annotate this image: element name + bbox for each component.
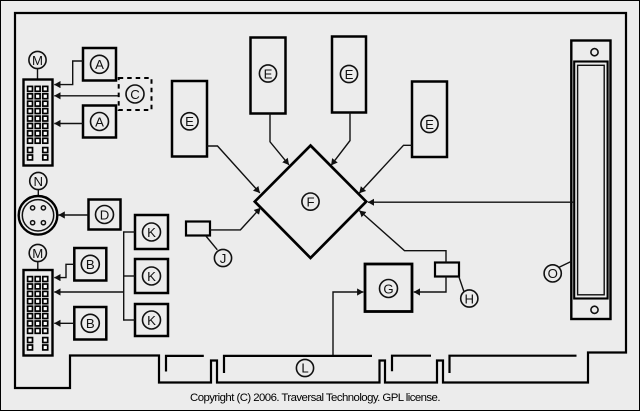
wire L to G bbox=[333, 292, 363, 355]
wire K3 stub bbox=[124, 319, 135, 321]
svg-text:B: B bbox=[86, 316, 95, 331]
slot bracket 3 bbox=[392, 356, 431, 372]
svg-text:K: K bbox=[147, 225, 156, 240]
connector O slot inner bbox=[578, 65, 605, 294]
connector O body bbox=[571, 41, 610, 320]
box E3 bbox=[332, 37, 366, 113]
wire E1 to F bbox=[207, 146, 260, 193]
wire E2 to F bbox=[270, 114, 289, 165]
svg-text:E: E bbox=[345, 67, 354, 82]
wire J to F bbox=[210, 208, 261, 230]
box E2 bbox=[251, 38, 286, 114]
wire A1 to M1 bbox=[54, 61, 83, 85]
svg-text:G: G bbox=[383, 281, 393, 296]
svg-text:H: H bbox=[465, 291, 475, 306]
chip H bbox=[435, 263, 459, 277]
box C (dashed) bbox=[119, 78, 152, 110]
box E1 bbox=[172, 81, 207, 157]
svg-text:K: K bbox=[147, 269, 156, 284]
wire H label link bbox=[459, 277, 464, 292]
box A1 bbox=[83, 48, 116, 81]
wire C to M1 bbox=[54, 95, 118, 97]
connector O screw hole top bbox=[591, 49, 598, 56]
wire M1 label stem bbox=[37, 68, 39, 80]
svg-text:L: L bbox=[301, 361, 308, 376]
chip J bbox=[186, 222, 210, 236]
box D bbox=[89, 200, 121, 230]
svg-text:E: E bbox=[185, 114, 194, 129]
label O bbox=[544, 265, 561, 282]
wire O label link bbox=[559, 261, 572, 267]
box G bbox=[365, 264, 412, 312]
wire K1 stub bbox=[124, 231, 135, 233]
wire K column vertical bbox=[123, 231, 125, 320]
box A2 bbox=[83, 106, 116, 138]
wire B1 to M2 bbox=[54, 264, 74, 277]
label J bbox=[214, 249, 231, 266]
svg-text:B: B bbox=[86, 257, 95, 272]
box K1 bbox=[135, 215, 168, 249]
connector N (round 4-pin) bbox=[19, 196, 58, 235]
box E4 bbox=[412, 82, 447, 158]
wire K2 stub bbox=[124, 275, 135, 277]
wire J label link bbox=[206, 236, 218, 250]
svg-text:O: O bbox=[548, 266, 558, 281]
svg-text:N: N bbox=[34, 174, 44, 189]
connector M2 (bottom DVI-style) label M bbox=[29, 244, 46, 261]
slot bracket L bbox=[224, 356, 372, 373]
svg-text:D: D bbox=[100, 207, 110, 222]
label H bbox=[461, 290, 478, 307]
svg-text:M: M bbox=[32, 53, 43, 68]
wire E3 to F bbox=[331, 113, 350, 166]
wire A2 to M1 bbox=[54, 123, 83, 125]
slot bracket 1 bbox=[166, 356, 204, 372]
connector O screw hole bottom bbox=[591, 306, 598, 313]
connector N label bbox=[30, 172, 47, 189]
connector M2 body bbox=[24, 270, 53, 356]
svg-text:A: A bbox=[95, 57, 104, 72]
wire H to G bbox=[414, 277, 446, 293]
wire N label stem bbox=[37, 189, 39, 196]
svg-text:Copyright (C) 2006. Traversal: Copyright (C) 2006. Traversal Technology… bbox=[190, 392, 440, 404]
wire K column to M2 bbox=[54, 291, 123, 293]
label L bbox=[296, 359, 313, 376]
svg-text:E: E bbox=[425, 117, 434, 132]
wire E4 to F bbox=[359, 145, 412, 193]
svg-text:A: A bbox=[95, 114, 104, 129]
wire M2 label stem bbox=[37, 261, 39, 270]
connector M1 pins bbox=[28, 86, 48, 159]
svg-text:M: M bbox=[32, 246, 43, 261]
wire O to F bbox=[368, 201, 574, 203]
slot bracket 4 bbox=[450, 356, 577, 373]
connector M1 (top DVI-style) label M bbox=[29, 51, 46, 68]
svg-text:C: C bbox=[130, 87, 140, 102]
box B1 bbox=[74, 248, 106, 281]
svg-text:E: E bbox=[264, 66, 273, 81]
svg-text:F: F bbox=[306, 194, 314, 209]
chip F (diamond) bbox=[255, 146, 366, 259]
connector M2 pins bbox=[28, 277, 48, 350]
connector O slot outer bbox=[574, 62, 607, 299]
wire H to F bbox=[359, 211, 446, 263]
box K2 bbox=[135, 259, 168, 293]
connector M1 body bbox=[24, 80, 53, 166]
svg-text:J: J bbox=[220, 251, 227, 266]
svg-text:K: K bbox=[147, 313, 156, 328]
wire D to N bbox=[59, 214, 89, 216]
wire B2 to M2 bbox=[54, 322, 74, 324]
box K3 bbox=[135, 304, 168, 336]
box B2 bbox=[74, 307, 106, 340]
